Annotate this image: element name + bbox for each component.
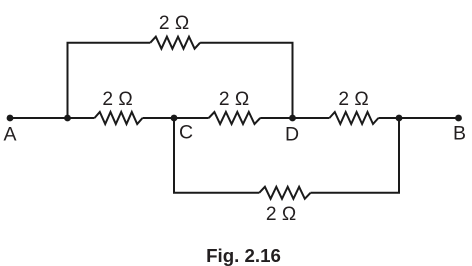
svg-text:2 Ω: 2 Ω (266, 204, 296, 225)
svg-text:C: C (179, 122, 193, 144)
svg-text:2 Ω: 2 Ω (159, 13, 189, 34)
svg-text:B: B (453, 123, 466, 145)
svg-text:2 Ω: 2 Ω (102, 89, 132, 110)
svg-text:D: D (285, 124, 299, 146)
svg-text:2 Ω: 2 Ω (338, 89, 368, 110)
svg-text:2 Ω: 2 Ω (219, 89, 249, 110)
svg-text:Fig. 2.16: Fig. 2.16 (206, 245, 281, 266)
svg-text:A: A (3, 124, 16, 146)
